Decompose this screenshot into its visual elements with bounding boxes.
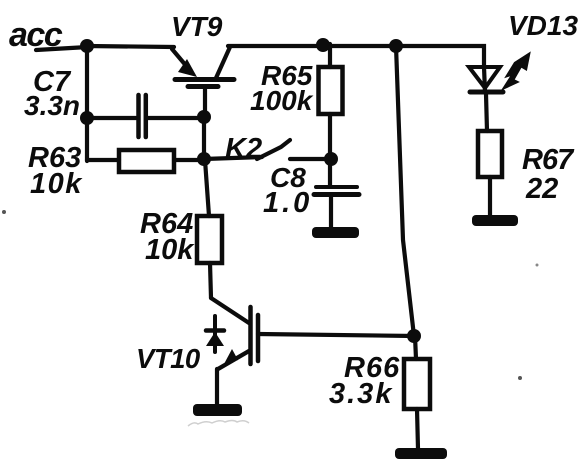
svg-text:10k: 10k: [145, 234, 195, 266]
svg-text:VT10: VT10: [136, 343, 201, 374]
svg-text:VT9: VT9: [171, 11, 223, 42]
svg-text:1.0: 1.0: [263, 187, 312, 219]
svg-text:R67: R67: [522, 144, 575, 176]
svg-text:acc: acc: [9, 16, 63, 54]
svg-text:K2: K2: [225, 133, 262, 165]
svg-text:VD13: VD13: [508, 10, 578, 41]
svg-text:3.3k: 3.3k: [329, 378, 393, 410]
svg-text:22: 22: [525, 173, 558, 205]
svg-text:10k: 10k: [30, 168, 83, 200]
svg-text:100k: 100k: [250, 85, 314, 116]
svg-text:3.3n: 3.3n: [24, 90, 80, 121]
